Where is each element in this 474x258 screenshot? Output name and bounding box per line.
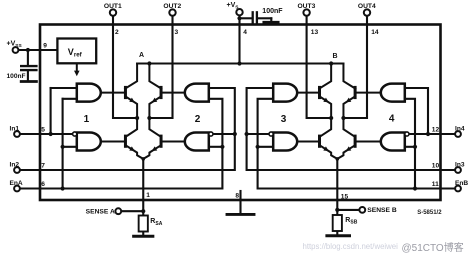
- svg-text:SENSE A: SENSE A: [86, 208, 115, 215]
- svg-text:8: 8: [235, 193, 239, 200]
- svg-text:100nF: 100nF: [7, 73, 26, 80]
- svg-text:SENSE B: SENSE B: [367, 207, 397, 214]
- svg-text:S-5851/2: S-5851/2: [417, 210, 442, 216]
- svg-text:15: 15: [341, 194, 349, 201]
- svg-text:2: 2: [195, 114, 201, 125]
- svg-text:EnA: EnA: [10, 180, 23, 187]
- svg-text:OUT1: OUT1: [104, 3, 122, 10]
- svg-text:https://blog.csdn.net/weiwei: https://blog.csdn.net/weiwei: [303, 242, 399, 251]
- svg-text:4: 4: [243, 29, 247, 36]
- svg-text:100nF: 100nF: [262, 8, 283, 15]
- svg-text:1: 1: [84, 114, 90, 125]
- svg-text:EnB: EnB: [455, 180, 468, 187]
- svg-text:14: 14: [371, 29, 379, 36]
- svg-text:11: 11: [432, 181, 439, 188]
- svg-text:B: B: [332, 53, 337, 60]
- svg-text:9: 9: [43, 43, 47, 50]
- svg-text:13: 13: [311, 29, 319, 36]
- svg-text:OUT2: OUT2: [163, 3, 181, 10]
- svg-text:In4: In4: [455, 126, 465, 133]
- svg-text:In3: In3: [455, 162, 465, 169]
- svg-text:3: 3: [174, 29, 178, 36]
- svg-text:5: 5: [41, 126, 45, 133]
- svg-text:A: A: [139, 52, 144, 59]
- svg-text:3: 3: [281, 114, 287, 125]
- svg-text:12: 12: [432, 126, 440, 133]
- svg-text:4: 4: [389, 113, 395, 124]
- svg-text:@51CTO博客: @51CTO博客: [402, 241, 464, 254]
- svg-text:1: 1: [146, 192, 150, 199]
- svg-text:In2: In2: [10, 162, 20, 169]
- svg-text:In1: In1: [10, 126, 20, 133]
- svg-text:6: 6: [41, 181, 45, 188]
- svg-text:2: 2: [115, 29, 119, 36]
- svg-text:7: 7: [41, 162, 45, 169]
- svg-text:OUT3: OUT3: [297, 3, 315, 10]
- svg-text:10: 10: [432, 162, 440, 169]
- svg-text:OUT4: OUT4: [358, 3, 376, 10]
